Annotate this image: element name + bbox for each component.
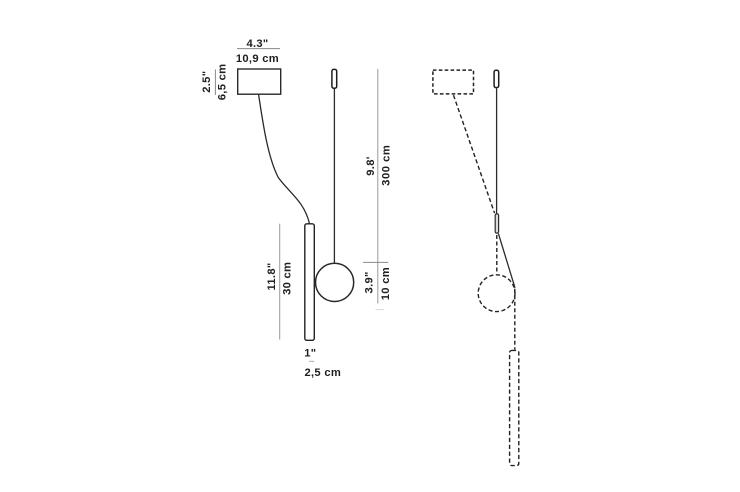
dashed cable canopy to connector bbox=[454, 95, 495, 213]
dimension line 30cm (left of tube) bbox=[279, 224, 281, 340]
dashed cable ball to tube bbox=[514, 289, 516, 350]
divider line top label bbox=[237, 48, 280, 50]
tube bbox=[305, 224, 315, 340]
svg-text:10,9 cm: 10,9 cm bbox=[236, 53, 279, 65]
svg-text:2.5": 2.5" bbox=[201, 71, 213, 93]
plug right bbox=[494, 70, 499, 87]
svg-text:300 cm: 300 cm bbox=[381, 145, 393, 186]
svg-text:3.9": 3.9" bbox=[364, 271, 376, 293]
svg-text:11.8": 11.8" bbox=[266, 263, 278, 291]
dashed cable connector to ball bbox=[496, 235, 498, 274]
connector bbox=[495, 214, 498, 233]
ball bbox=[316, 263, 354, 301]
curved cable canopy to tube bbox=[259, 95, 310, 224]
svg-text:1": 1" bbox=[304, 347, 316, 359]
svg-text:4.3": 4.3" bbox=[246, 38, 268, 50]
mini divider bbox=[309, 360, 314, 362]
dashed ball bbox=[478, 275, 515, 312]
solid tilted cable bbox=[498, 234, 515, 288]
dashed tube bbox=[510, 350, 519, 465]
faint tick bottom bbox=[376, 309, 385, 311]
svg-text:9.8': 9.8' bbox=[365, 156, 377, 175]
svg-text:6,5 cm: 6,5 cm bbox=[216, 64, 228, 101]
dashed canopy bbox=[433, 70, 474, 94]
straight cable plug to connector bbox=[496, 88, 498, 214]
svg-text:10 cm: 10 cm bbox=[380, 267, 392, 300]
tick top of 10cm bbox=[363, 261, 389, 263]
svg-text:2,5 cm: 2,5 cm bbox=[305, 367, 342, 379]
svg-text:30 cm: 30 cm bbox=[282, 262, 294, 295]
divider line left label bbox=[214, 70, 216, 96]
ball cable bbox=[333, 89, 335, 263]
canopy rectangle bbox=[238, 69, 281, 94]
dimension line 300cm (long vertical) bbox=[377, 69, 379, 304]
plug left bbox=[332, 69, 337, 88]
